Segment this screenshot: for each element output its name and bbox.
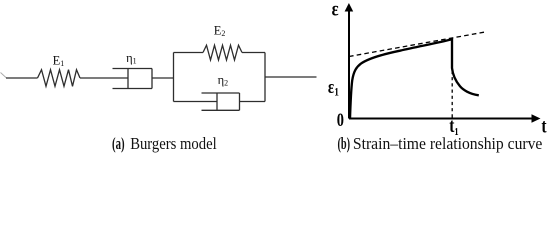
svg-text:ε1: ε1 [328, 76, 339, 98]
svg-text:ε: ε [332, 0, 339, 21]
svg-text:Strain–time relationship curve: Strain–time relationship curve [353, 134, 543, 153]
svg-text:(b): (b) [338, 134, 351, 153]
svg-text:η2: η2 [218, 73, 229, 88]
svg-text:Burgers model: Burgers model [130, 134, 217, 153]
svg-text:E1: E1 [53, 54, 65, 69]
svg-text:E2: E2 [214, 23, 226, 38]
svg-text:(a): (a) [112, 134, 125, 153]
svg-text:η1: η1 [126, 51, 137, 66]
svg-text:0: 0 [337, 109, 344, 130]
